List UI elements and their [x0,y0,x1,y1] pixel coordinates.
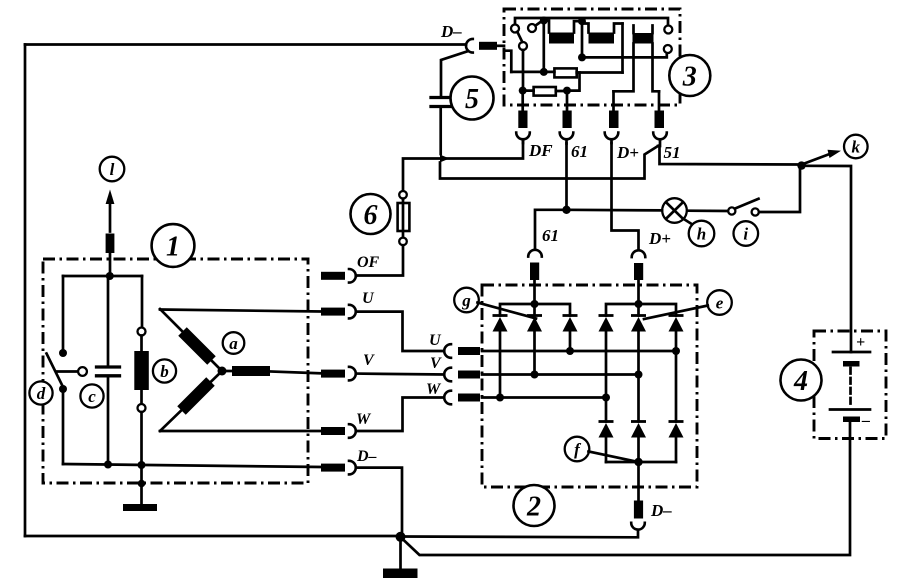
terminal k label [844,135,868,159]
connector D- top [466,39,504,53]
coil 1 voltage winding [544,21,582,44]
stator label a [223,332,245,354]
node V dots [531,371,643,379]
bus phase V [482,373,639,376]
resistor R2 [523,87,567,96]
svg-text:D+: D+ [616,143,639,162]
wire 61 node riser [567,73,580,91]
diode neg left [599,422,614,438]
node 61 dot [563,87,571,95]
wire W run [356,398,444,432]
node U dots [566,347,680,355]
node negative dot [634,458,642,466]
fuse 6 label [351,194,391,234]
wire moving contact left [504,51,511,72]
capacitor 5 branch wire [441,52,467,97]
terminal 51 plug [655,111,665,129]
svg-text:D–: D– [440,22,462,41]
label OF [357,254,380,271]
bus negative [606,461,676,464]
node 61 junction [562,206,570,214]
svg-text:V: V [363,352,375,369]
node dot resistor1 left [540,68,548,76]
regulator 3 top bus [515,18,668,26]
svg-text:D–: D– [650,501,672,520]
svg-text:DF: DF [528,141,553,160]
wire phase W out [160,430,321,433]
svg-text:D+: D+ [648,229,671,248]
diode trioD mid [631,316,646,332]
svg-text:W: W [356,411,372,428]
resistor R1 [544,68,623,77]
label D+ lower [648,229,671,248]
junction arrow on DF line [440,155,450,163]
node 61 bus dot [531,300,539,308]
lamp h label [689,221,715,247]
label 51 [664,143,681,162]
node bottom bus dots [104,461,146,470]
svg-text:k: k [852,138,861,157]
switch d label [29,381,52,404]
wire 61 into rectifier [533,280,536,304]
label e leader [644,306,708,320]
terminal U plug [321,305,356,319]
diode trioD left [599,316,614,332]
node top bus dot [106,272,114,280]
connector DF socket [516,133,530,144]
lamp h [662,198,687,223]
node ground junction [396,532,406,542]
connector 61 socket [560,133,574,144]
node dot1 [540,17,548,25]
wire block1 top bus [63,275,142,278]
label U right [429,332,442,349]
svg-text:OF: OF [357,254,380,271]
rectifier label 2 [514,485,555,526]
node DF dot [519,87,527,95]
svg-text:b: b [160,362,169,381]
wire resistor row link [511,21,544,72]
contact circles cutout relay [664,26,673,54]
label V [363,352,375,369]
connector U input [444,344,480,358]
bus diode trio 61 [500,304,570,316]
svg-text:D–: D– [356,448,377,465]
svg-text:h: h [697,225,706,244]
node W dots [496,394,610,402]
wire rectifier D- to ground node [400,531,638,538]
alternator label 1 [152,224,195,267]
regulator 3 dash-dot box [504,9,680,105]
coil 2 winding [582,24,623,44]
terminal l arrow [106,190,115,232]
node dot2 [578,17,586,25]
svg-text:1: 1 [166,232,180,263]
wire to cutout contacts [582,53,667,57]
svg-text:3: 3 [682,62,697,93]
label DF [528,141,553,160]
capacitor 5 label [451,77,494,120]
contact lever relay 1 [517,21,541,42]
ground block1 [123,465,157,511]
wire DF run [403,140,523,191]
svg-text:6: 6 [364,200,378,231]
rectifier 2 dash-dot box [482,285,697,487]
wire U run [356,312,444,351]
wire 61 to junction [565,144,568,210]
wire D- out of rectifier [637,462,640,500]
battery 4 cells [830,334,870,429]
wire neg anodes [606,438,676,463]
label D+ [616,143,639,162]
terminal l plug [106,234,115,277]
wire D+ into rectifier [637,280,640,304]
label D- bottom [650,501,672,520]
label e circle [707,290,732,315]
svg-text:U: U [429,332,442,349]
svg-text:61: 61 [542,226,559,245]
capacitor c [97,276,120,465]
capacitor C5 [431,98,450,107]
wire OF to fuse [354,274,357,277]
svg-text:5: 5 [465,84,479,115]
diode trioD right [669,316,684,332]
svg-text:W: W [426,381,442,398]
field coil b [134,276,149,465]
label 61 [571,142,588,161]
label 61 lower [542,226,559,245]
capacitor 5 lower wire [439,107,442,155]
label f circle [565,437,590,462]
svg-text:+: + [856,334,865,351]
svg-text:2: 2 [526,492,541,523]
wire contact column [522,50,525,91]
battery 4 dash-dot box [814,331,886,439]
diode neg mid [631,422,646,438]
wire fuse to OF [356,245,403,275]
wire 61 junction to lamp [567,208,663,211]
terminal W plug [321,424,356,438]
svg-text:51: 51 [664,143,681,162]
label D- left [356,448,377,465]
svg-text:–: – [861,412,870,429]
node D+ bus dot [635,300,643,308]
terminal D- rectifier plug [631,501,645,530]
bus phase U [482,350,676,353]
label g leader [478,303,537,319]
svg-text:g: g [461,291,471,310]
contact circles relay 1 [511,24,536,50]
diode neg right [669,422,684,438]
bus phase W [482,396,606,399]
svg-text:4: 4 [793,366,808,397]
diode trio61 right [563,316,578,332]
diode trio61 left [493,316,508,332]
bus diode trio D+ [606,304,676,316]
terminal OF plug [321,269,356,283]
label D- top [440,22,462,41]
terminal D+ plug [609,111,619,129]
label V right [430,355,442,372]
wire phase V out [270,372,321,374]
label W right [426,381,442,398]
switch i [688,166,801,216]
terminal DF plug [518,111,527,129]
label W [356,411,372,428]
capacitor c label [80,384,103,407]
switch d [47,276,87,464]
terminal D- plug [321,461,356,475]
switch i label [734,221,759,246]
wire coil2 to resistor1 [621,24,624,73]
wire trio61 anodes [500,332,570,398]
wire D- top run [25,43,466,46]
regulator terminal stubs [523,91,659,111]
svg-text:i: i [743,225,748,244]
svg-text:61: 61 [571,142,588,161]
fuse 6 [398,191,410,245]
ground [383,537,418,578]
connector D+ rectifier plug [632,250,646,280]
lamp h leader [685,220,693,225]
svg-text:c: c [88,387,96,406]
svg-text:a: a [229,334,238,353]
wire 61 branch to rectifier [535,210,567,249]
svg-text:U: U [362,290,375,307]
connector 61 rectifier plug [528,250,542,280]
terminal l label [100,157,125,182]
connector W input [444,391,480,405]
connector D+ socket [605,133,619,144]
terminal 61 plug [563,111,572,129]
connector 51 socket [653,133,667,147]
alternator 1 dash-dot box [43,259,308,483]
svg-text:V: V [430,355,442,372]
svg-text:e: e [716,294,724,313]
wire trioD columns [606,332,676,422]
wire left vertical run [24,45,27,537]
wire junction to battery plus [802,166,852,352]
coil 3 current winding [614,26,660,92]
wire battery return diagonal [403,421,851,555]
label U [362,290,375,307]
wire 51 to terminal k run [660,146,801,165]
battery label 4 [781,360,822,401]
field coil b label [153,359,176,382]
terminal k arrow [803,150,841,164]
regulator label 3 [669,55,710,96]
wire to 51 run [440,146,658,179]
stator star winding a [160,309,270,431]
label f leader [589,452,637,462]
wire D+ run to rectifier [612,143,639,249]
node dot3 [578,53,586,61]
wire D- run [356,468,402,536]
label g circle [454,288,479,313]
wire dot2 down [581,21,584,57]
wire V run [356,372,444,376]
node k junction [797,161,805,169]
svg-text:l: l [110,160,115,179]
diode trio61 mid [527,316,542,332]
svg-text:d: d [37,384,46,403]
connector V input [444,368,480,382]
wire block1 bottom bus [63,464,321,467]
wire bottom ground run [25,535,400,538]
terminal V plug [321,367,356,381]
wire phase U out [160,310,321,312]
